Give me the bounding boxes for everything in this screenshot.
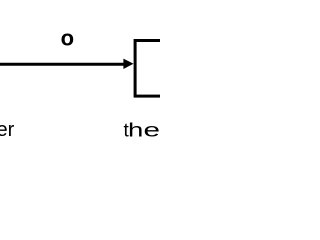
arrowhead: [123, 59, 133, 69]
svg-text:e: e: [144, 120, 160, 141]
svg-text:h: h: [128, 120, 143, 141]
svg-text:o: o: [61, 25, 74, 50]
wire arrow shaft: [0, 63, 125, 66]
box (cell), right side off-canvas: [135, 41, 195, 97]
svg-text:er: er: [0, 119, 15, 141]
